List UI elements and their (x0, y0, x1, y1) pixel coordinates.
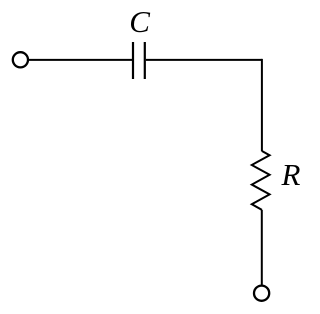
wire: left terminal to capacitor (29, 59, 132, 61)
wire: resistor to bottom terminal (261, 210, 263, 285)
svg-text:C: C (129, 4, 150, 39)
wire: corner down to resistor (261, 59, 263, 151)
terminal bottom (254, 286, 269, 301)
capacitor C (133, 42, 145, 79)
svg-text:R: R (281, 157, 301, 192)
wire: capacitor to corner (146, 59, 262, 61)
resistor R (252, 151, 270, 210)
terminal left (13, 52, 28, 67)
